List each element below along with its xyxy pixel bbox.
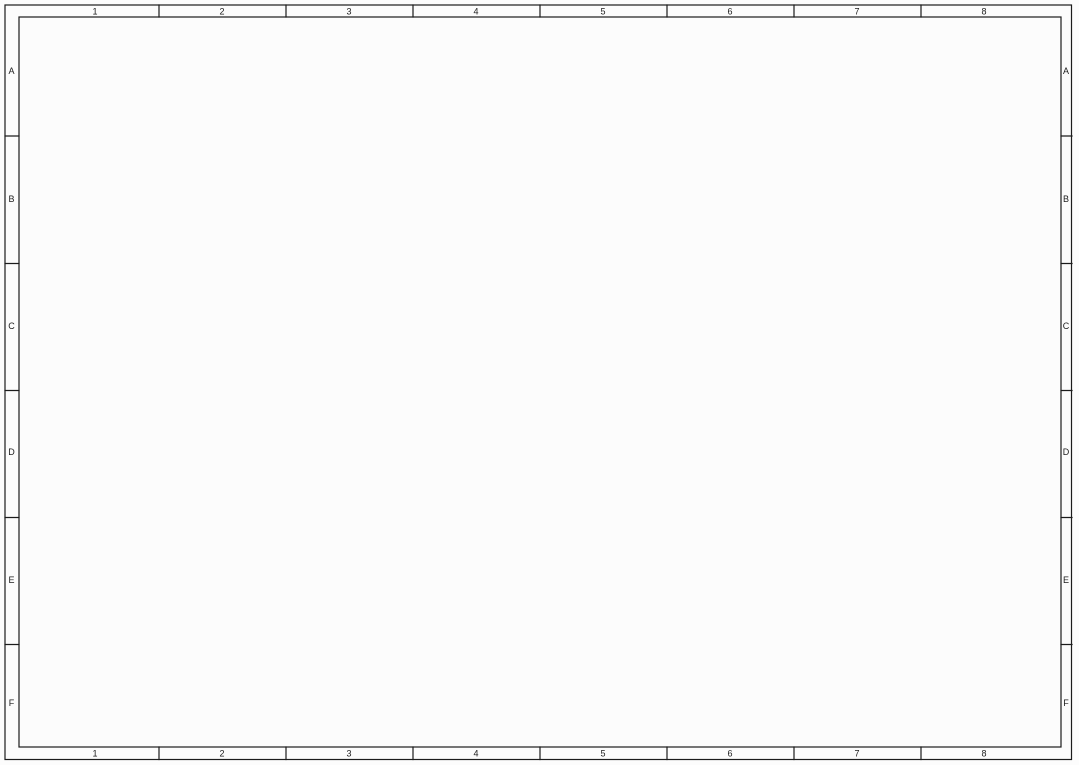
svg-text:B: B [1063,194,1069,204]
svg-text:A: A [1063,66,1069,76]
svg-text:4: 4 [473,7,478,17]
svg-text:7: 7 [854,7,859,17]
svg-text:2: 2 [219,7,224,17]
svg-text:C: C [8,321,15,331]
svg-text:3: 3 [346,7,351,17]
svg-text:4: 4 [473,749,478,759]
svg-text:E: E [8,575,14,585]
svg-text:8: 8 [981,749,986,759]
svg-text:5: 5 [600,749,605,759]
svg-text:D: D [8,447,15,457]
svg-text:3: 3 [346,749,351,759]
svg-text:6: 6 [727,7,732,17]
svg-text:7: 7 [854,749,859,759]
svg-text:C: C [1063,321,1070,331]
svg-text:B: B [8,194,14,204]
svg-text:1: 1 [92,7,97,17]
svg-text:6: 6 [727,749,732,759]
svg-text:1: 1 [92,749,97,759]
svg-text:F: F [9,698,15,708]
svg-text:A: A [8,66,14,76]
svg-text:8: 8 [981,7,986,17]
svg-text:F: F [1063,698,1069,708]
svg-text:D: D [1063,447,1070,457]
svg-text:2: 2 [219,749,224,759]
svg-text:E: E [1063,575,1069,585]
svg-text:5: 5 [600,7,605,17]
